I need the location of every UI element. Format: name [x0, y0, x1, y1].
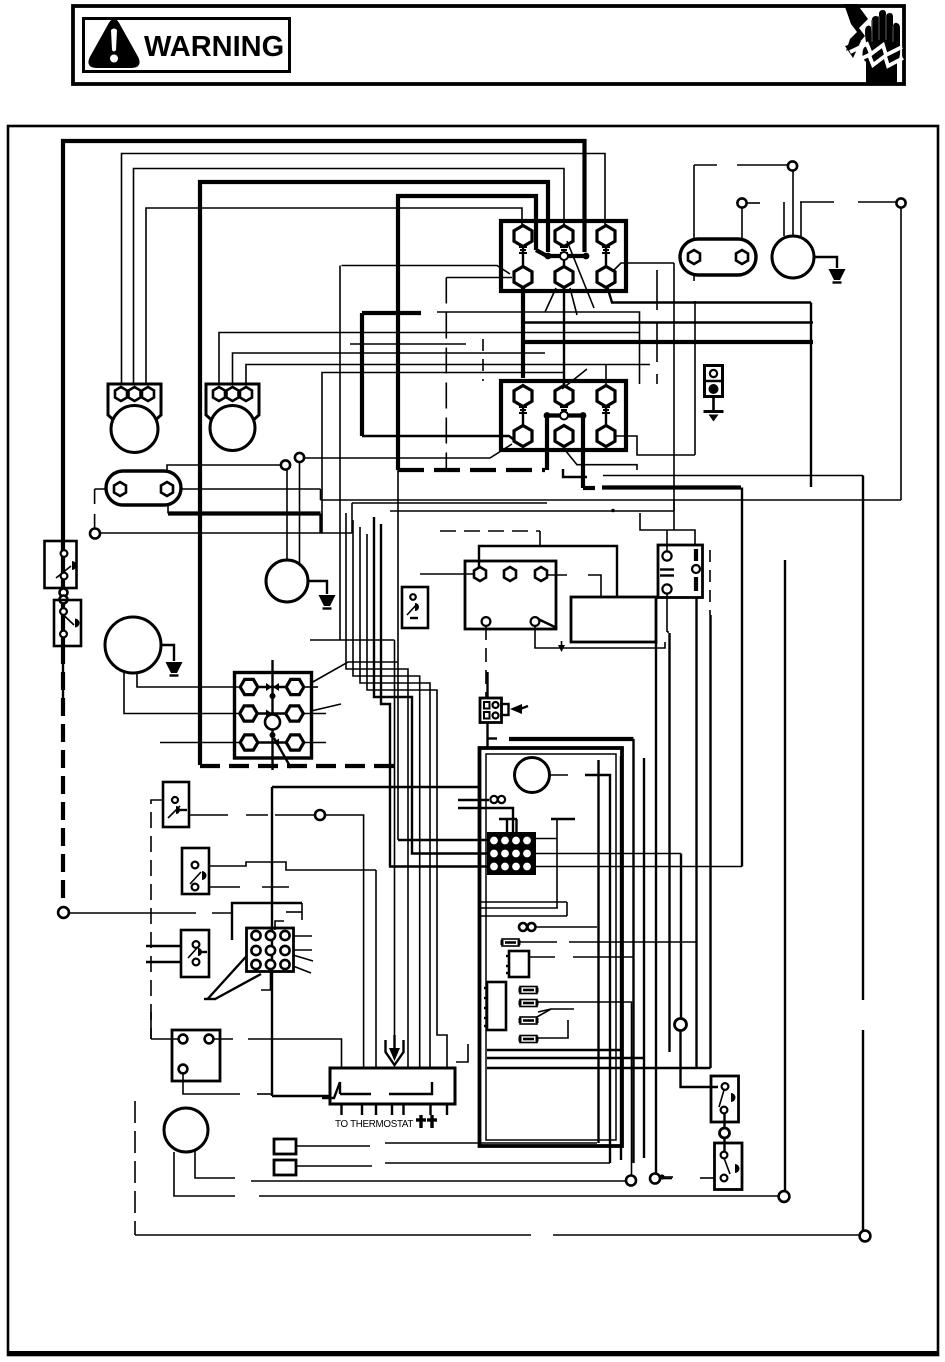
svg-text:WARNING: WARNING	[144, 31, 284, 63]
svg-text:TO THERMOSTAT: TO THERMOSTAT	[335, 1119, 413, 1130]
